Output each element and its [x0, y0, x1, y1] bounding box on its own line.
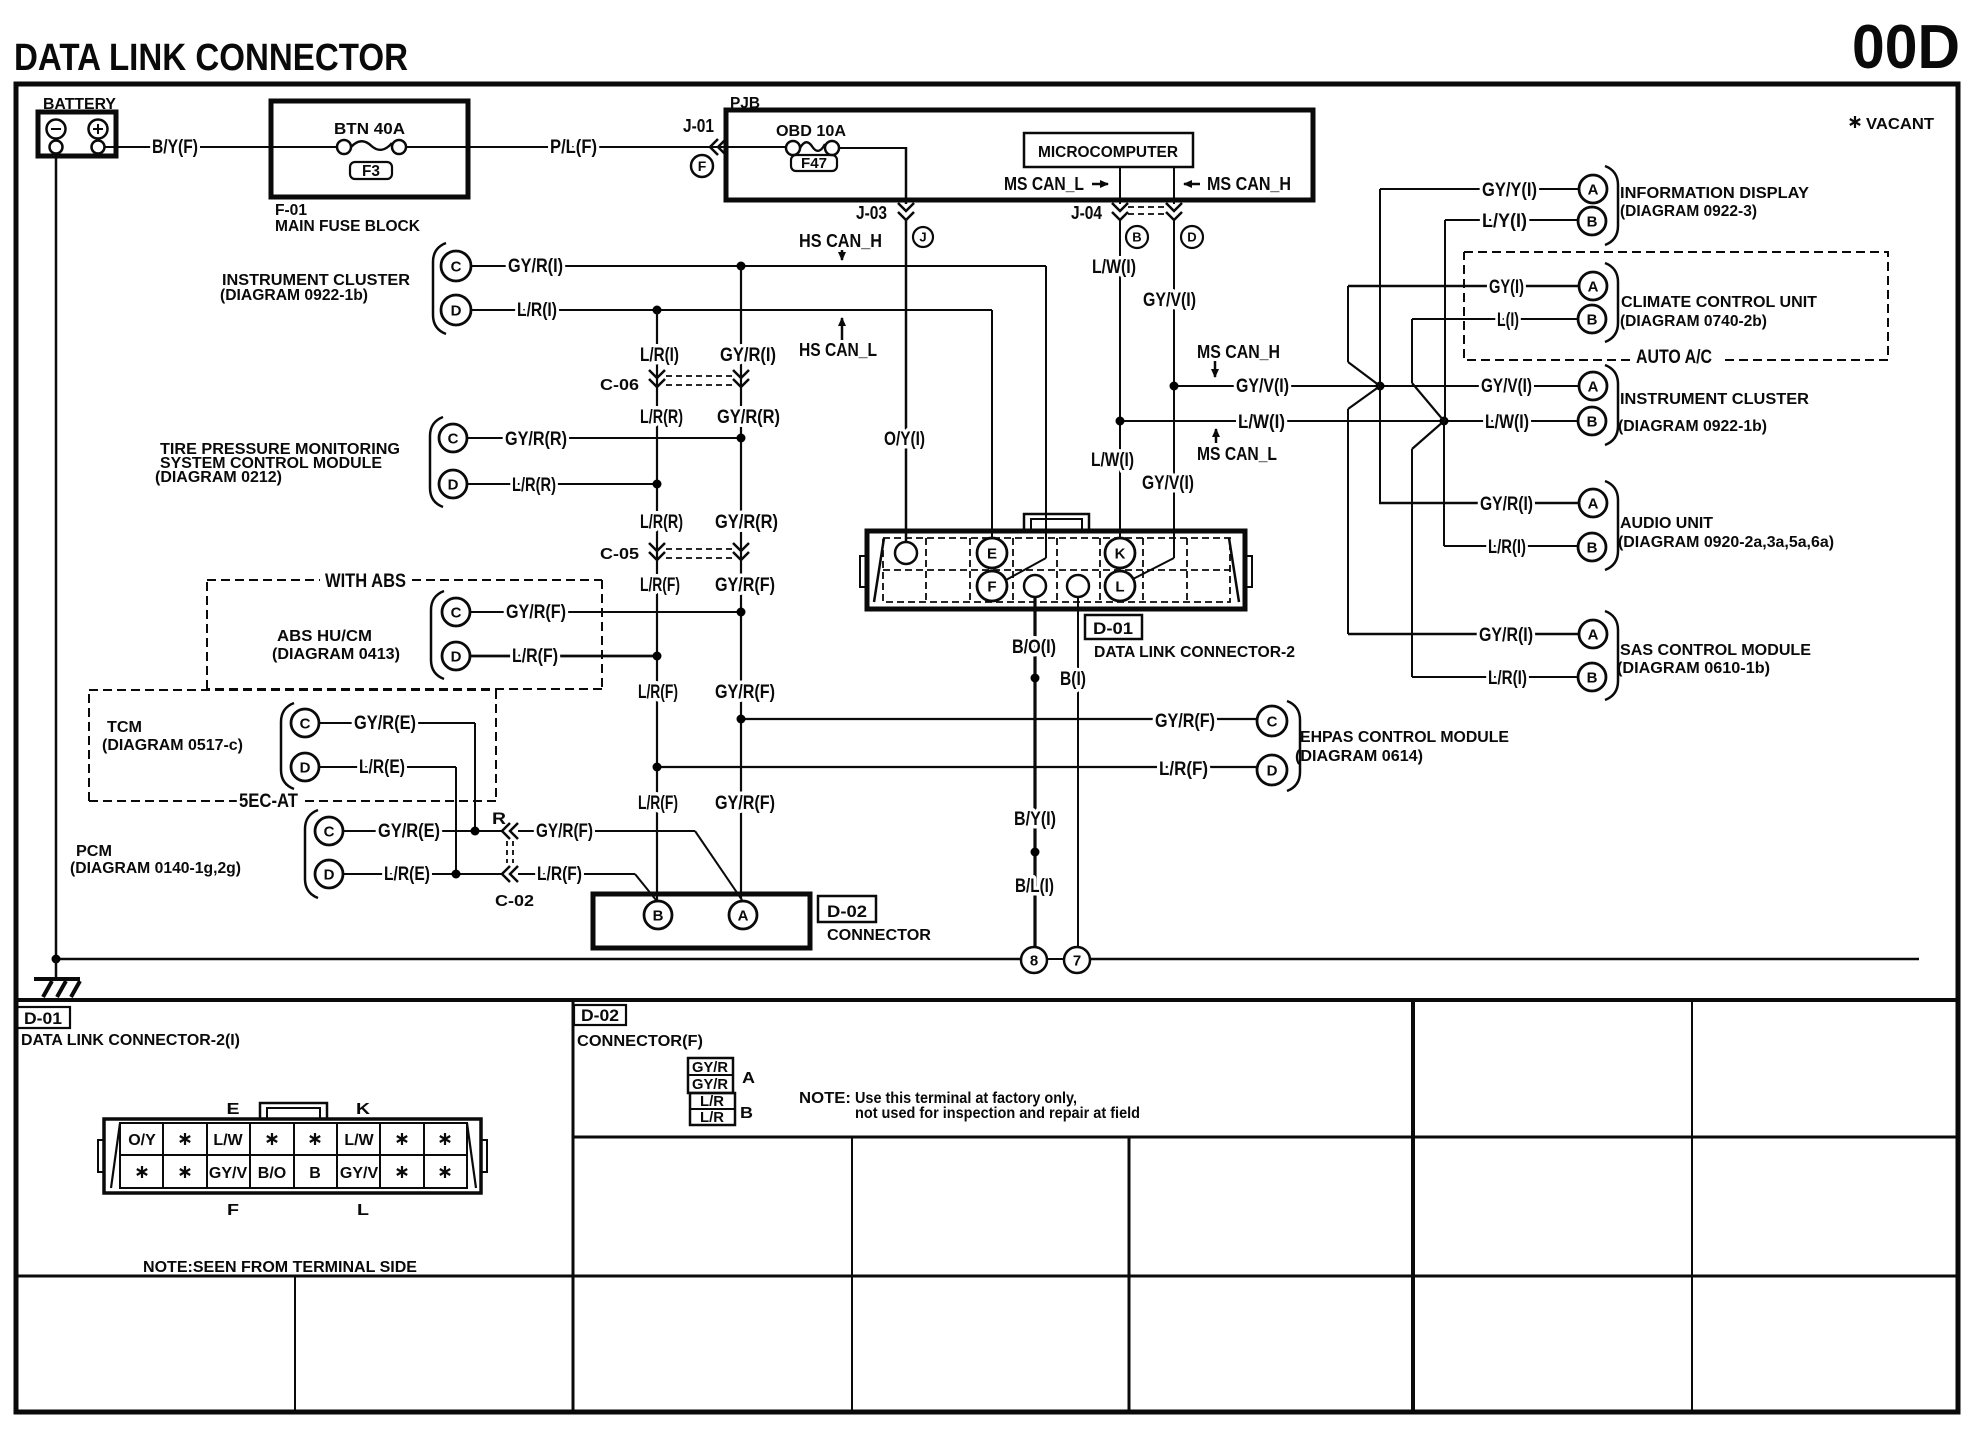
svg-text:GY/V: GY/V — [340, 1165, 379, 1182]
wire L/R(I) HS CAN_L row — [471, 309, 992, 311]
wire GY/R(F) to EHPAS C — [741, 718, 1257, 720]
svg-text:B: B — [1587, 539, 1598, 556]
svg-text:F: F — [227, 1202, 239, 1219]
pin D TCM — [291, 753, 319, 781]
svg-text:GY/R(I): GY/R(I) — [1479, 625, 1533, 646]
wire GY/Y(I) vertical — [1379, 189, 1381, 386]
svg-text:DATA LINK CONNECTOR: DATA LINK CONNECTOR — [14, 37, 408, 79]
svg-text:A: A — [1588, 495, 1599, 512]
svg-text:B/L(I): B/L(I) — [1015, 876, 1054, 897]
wire L/R(F) C-02 to D-02 pin B — [518, 873, 635, 875]
svg-text:MS CAN_H: MS CAN_H — [1207, 174, 1291, 194]
wire MS CAN_L from microcomputer — [1119, 167, 1121, 204]
svg-text:OBD 10A: OBD 10A — [776, 123, 846, 140]
svg-text:L/R(F): L/R(F) — [537, 864, 582, 885]
svg-text:(DIAGRAM 0740-2b): (DIAGRAM 0740-2b) — [1620, 313, 1767, 330]
svg-text:B/Y(I): B/Y(I) — [1014, 809, 1056, 830]
svg-text:CLIMATE CONTROL UNIT: CLIMATE CONTROL UNIT — [1621, 294, 1817, 311]
svg-text:NOTE:SEEN FROM TERMINAL SIDE: NOTE:SEEN FROM TERMINAL SIDE — [143, 1259, 417, 1276]
junction MS CAN_L X crossing — [1440, 417, 1449, 426]
svg-text:GY/R(I): GY/R(I) — [720, 345, 776, 366]
svg-text:GY/V: GY/V — [209, 1165, 248, 1182]
wire L/R(F) to EHPAS D — [657, 766, 1257, 768]
svg-text:B: B — [1587, 213, 1598, 230]
D-01 terminal diagram — [104, 1119, 481, 1193]
pin A SAS — [1579, 620, 1607, 648]
wire GY/R(I) to SAS A — [1348, 633, 1579, 636]
svg-text:A: A — [1588, 378, 1599, 395]
wire battery negative to ground bus — [55, 154, 58, 959]
wire OBD output turns down inside PJB — [905, 147, 908, 204]
svg-text:D-01: D-01 — [1093, 619, 1133, 638]
svg-text:D: D — [448, 476, 459, 493]
pin D PCM — [315, 860, 343, 888]
wire L/R(E) TCM D — [319, 766, 456, 768]
main fuse block F-01 — [271, 101, 468, 197]
svg-text:5EC-AT: 5EC-AT — [239, 791, 298, 812]
wire GY/R(I) to audio A — [1379, 502, 1579, 505]
wire L(I) to climate B — [1412, 318, 1578, 320]
terminal grid — [120, 1123, 467, 1188]
svg-text:MS CAN_L: MS CAN_L — [1197, 444, 1277, 464]
pin C instrument cluster — [441, 251, 471, 281]
ground symbol — [55, 959, 58, 978]
svg-text:GY(I): GY(I) — [1489, 277, 1524, 298]
wire L/Y(I) to info display B — [1445, 219, 1578, 221]
wire GY/R chain vertical to D-02 pin A — [740, 266, 742, 899]
svg-text:GY/R(F): GY/R(F) — [715, 682, 775, 703]
wire GY/V(I) J-04 D to DLC-2 pin L — [1173, 220, 1175, 558]
svg-text:(DIAGRAM 0610-1b): (DIAGRAM 0610-1b) — [1617, 660, 1770, 677]
svg-text:GY/R(F): GY/R(F) — [715, 575, 775, 596]
svg-text:C: C — [300, 715, 311, 732]
svg-text:B: B — [1587, 669, 1598, 686]
svg-text:L/W(I): L/W(I) — [1485, 412, 1529, 433]
pin C TCM — [291, 709, 319, 737]
svg-text:L/R(E): L/R(E) — [384, 864, 430, 885]
wire P/L(F) fuse block to PJB — [406, 146, 726, 148]
wire GY/R(E) TCM C — [319, 722, 475, 724]
svg-text:L/R: L/R — [700, 1093, 724, 1110]
svg-text:DATA LINK CONNECTOR-2: DATA LINK CONNECTOR-2 — [1094, 644, 1295, 661]
svg-text:B(I): B(I) — [1060, 669, 1086, 690]
svg-text:EHPAS CONTROL MODULE: EHPAS CONTROL MODULE — [1300, 729, 1509, 746]
wire GY(I) to climate A — [1348, 285, 1579, 288]
svg-text:BTN 40A: BTN 40A — [334, 121, 405, 138]
svg-text:L/R(I): L/R(I) — [1488, 537, 1526, 558]
svg-text:GY/V(I): GY/V(I) — [1481, 376, 1532, 397]
svg-text:E: E — [987, 545, 997, 562]
wire L(I) vertical — [1411, 319, 1413, 383]
svg-text:L/R(F): L/R(F) — [512, 646, 558, 667]
separator schematic/table — [16, 998, 1958, 1002]
svg-text:P/L(F): P/L(F) — [550, 137, 597, 158]
svg-text:CONNECTOR: CONNECTOR — [827, 927, 931, 944]
svg-text:B: B — [1132, 230, 1141, 245]
svg-text:R: R — [492, 809, 506, 828]
pin B D-02 — [644, 901, 672, 929]
svg-text:B: B — [309, 1165, 321, 1182]
svg-text:B: B — [653, 907, 664, 924]
svg-text:GY/R(F): GY/R(F) — [1155, 711, 1215, 732]
wire GY(I) vertical — [1347, 286, 1349, 362]
pin D TPMS — [439, 470, 467, 498]
svg-text:C: C — [451, 604, 462, 621]
dashed group AUTO A/C — [1464, 252, 1888, 360]
dashed group WITH ABS — [207, 580, 602, 689]
svg-text:GY/R(E): GY/R(E) — [354, 713, 416, 734]
svg-text:L/R(E): L/R(E) — [359, 757, 405, 778]
svg-text:AUTO A/C: AUTO A/C — [1636, 347, 1712, 368]
svg-text:A: A — [738, 907, 749, 924]
svg-text:L(I): L(I) — [1497, 310, 1519, 331]
svg-text:L/R(F): L/R(F) — [1159, 759, 1208, 780]
pin D EHPAS — [1257, 755, 1287, 785]
svg-text:D: D — [1267, 762, 1278, 779]
wire GY/R(I) HS CAN_H row — [471, 265, 1046, 267]
svg-text:L: L — [1115, 578, 1124, 595]
svg-text:O/Y(I): O/Y(I) — [884, 429, 925, 450]
wire GY/V(I) MS CAN_H row — [1174, 385, 1579, 387]
svg-text:(DIAGRAM 0614): (DIAGRAM 0614) — [1295, 748, 1423, 765]
wire L/R(F) ABS D — [470, 655, 657, 658]
svg-text:L/Y(I): L/Y(I) — [1482, 211, 1527, 232]
svg-text:PCM: PCM — [76, 843, 112, 860]
svg-text:00D: 00D — [1852, 13, 1960, 82]
svg-text:F3: F3 — [362, 163, 380, 180]
svg-text:L/R(F): L/R(F) — [638, 682, 678, 703]
label D-02 table — [574, 1005, 626, 1025]
svg-text:C: C — [448, 430, 459, 447]
svg-text:(DIAGRAM 0140-1g,2g): (DIAGRAM 0140-1g,2g) — [70, 860, 241, 877]
svg-text:not used for inspection and re: not used for inspection and repair at fi… — [855, 1105, 1140, 1122]
svg-text:GY/V(I): GY/V(I) — [1142, 473, 1194, 494]
battery — [38, 112, 116, 156]
table grid — [572, 1000, 575, 1412]
inner dashed grid — [883, 538, 1230, 602]
svg-text:GY/R(I): GY/R(I) — [1480, 494, 1533, 515]
svg-text:A: A — [742, 1070, 755, 1087]
svg-text:F-01: F-01 — [275, 202, 307, 219]
wire MS CAN_H from microcomputer — [1173, 167, 1175, 204]
svg-text:GY/V(I): GY/V(I) — [1236, 376, 1289, 397]
pin C EHPAS — [1257, 706, 1287, 736]
svg-text:D-02: D-02 — [581, 1006, 619, 1025]
svg-text:INFORMATION DISPLAY: INFORMATION DISPLAY — [1620, 185, 1809, 202]
svg-text:SAS CONTROL MODULE: SAS CONTROL MODULE — [1620, 642, 1811, 659]
pin B audio — [1578, 533, 1606, 561]
pin L — [1105, 571, 1135, 601]
note VACANT — [1850, 116, 1860, 128]
svg-text:8: 8 — [1030, 952, 1038, 969]
svg-text:A: A — [1588, 626, 1599, 643]
wire GY/R(F) C-02 to D-02 pin A — [518, 830, 695, 832]
svg-text:(DIAGRAM 0922-1b): (DIAGRAM 0922-1b) — [1618, 418, 1767, 435]
svg-text:C: C — [451, 258, 462, 275]
wire B/Y(F) battery to main fuse block — [105, 146, 271, 148]
label D-01 — [1085, 615, 1142, 639]
wire L/R chain vertical to D-02 pin B — [656, 310, 658, 901]
svg-text:GY/V(I): GY/V(I) — [1143, 290, 1196, 311]
PJB junction block — [726, 110, 1313, 200]
svg-text:D: D — [451, 302, 462, 319]
svg-text:L/R(R): L/R(R) — [640, 512, 683, 533]
svg-text:B/O: B/O — [258, 1165, 286, 1182]
svg-text:MS CAN_H: MS CAN_H — [1197, 342, 1280, 362]
wire O/Y(I) J-03 to DLC-2 pin 1 — [905, 220, 908, 542]
svg-text:GY/R(R): GY/R(R) — [717, 407, 780, 428]
svg-text:L/R(R): L/R(R) — [512, 475, 556, 496]
dashed group TCM 5EC-AT — [89, 690, 496, 801]
pin K — [1105, 538, 1135, 568]
wire L/W(I) MS CAN_L row — [1120, 420, 1578, 422]
ground splice 7 — [1064, 947, 1090, 973]
svg-text:BATTERY: BATTERY — [43, 96, 116, 113]
svg-text:D: D — [1187, 230, 1196, 245]
svg-text:HS CAN_H: HS CAN_H — [799, 231, 882, 251]
svg-text:MS CAN_L: MS CAN_L — [1004, 174, 1084, 194]
svg-text:L/R(F): L/R(F) — [640, 575, 680, 596]
svg-text:GY/R(F): GY/R(F) — [715, 793, 775, 814]
wire L/W(I) J-04 B to DLC-2 pin K — [1119, 220, 1121, 538]
svg-text:(DIAGRAM 0922-1b): (DIAGRAM 0922-1b) — [220, 287, 368, 304]
svg-text:AUDIO UNIT: AUDIO UNIT — [1620, 515, 1713, 532]
svg-text:VACANT: VACANT — [1866, 116, 1934, 133]
wire between splices — [1047, 958, 1064, 960]
svg-text:GY/R(E): GY/R(E) — [378, 821, 440, 842]
svg-text:L/R(F): L/R(F) — [638, 793, 678, 814]
wire GY/Y(I) to info display A — [1380, 188, 1579, 190]
pin C ABS — [442, 598, 470, 626]
pin B — [1067, 575, 1089, 597]
svg-text:GY/R(F): GY/R(F) — [506, 602, 566, 623]
svg-text:MAIN FUSE BLOCK: MAIN FUSE BLOCK — [275, 218, 420, 235]
svg-text:B: B — [1587, 413, 1598, 430]
trapezoid ends — [874, 538, 1239, 602]
svg-text:B: B — [740, 1105, 753, 1122]
fuse BTN 40A F3 — [271, 146, 337, 148]
microcomputer — [1024, 133, 1193, 167]
junction MS CAN_H X crossing — [1376, 382, 1385, 391]
svg-text:L/W: L/W — [344, 1132, 374, 1149]
pin B instrument cluster right — [1578, 407, 1606, 435]
svg-text:E: E — [227, 1101, 240, 1118]
ground splice 8 — [1021, 947, 1047, 973]
svg-text:D: D — [300, 759, 311, 776]
fuse OBD 10A F47 — [726, 146, 786, 148]
wire L/R(R) TPMS D — [467, 483, 657, 485]
svg-text:HS CAN_L: HS CAN_L — [799, 340, 877, 360]
pin D ABS — [442, 642, 470, 670]
svg-text:GY/R(R): GY/R(R) — [715, 512, 778, 533]
svg-text:C: C — [1267, 713, 1278, 730]
svg-text:D-02: D-02 — [827, 902, 867, 921]
wire L/R(E) PCM D to C-02 — [343, 873, 502, 875]
svg-text:C-02: C-02 — [495, 893, 534, 910]
ground bus wire — [56, 958, 1021, 961]
wire B(I) pin to splice 7 — [1077, 597, 1079, 947]
pin B climate — [1578, 305, 1606, 333]
svg-text:(DIAGRAM 0413): (DIAGRAM 0413) — [272, 646, 400, 663]
wire L/R(I) to audio B — [1444, 545, 1578, 547]
pin A instrument cluster right — [1579, 372, 1607, 400]
wire B/O(I)-B/Y(I)-B/L(I) pin to splice 8 — [1033, 597, 1036, 947]
svg-text:L/R(I): L/R(I) — [640, 345, 679, 366]
pin A D-02 — [729, 901, 757, 929]
pin B info display — [1578, 207, 1606, 235]
svg-text:F47: F47 — [801, 155, 827, 172]
svg-text:GY/Y(I): GY/Y(I) — [1482, 180, 1537, 201]
svg-text:(DIAGRAM 0517-c): (DIAGRAM 0517-c) — [102, 737, 243, 754]
wire GY/R(F) ABS C — [470, 611, 741, 613]
svg-text:C-05: C-05 — [600, 546, 639, 563]
svg-text:(DIAGRAM 0920-2a,3a,5a,6a): (DIAGRAM 0920-2a,3a,5a,6a) — [1618, 534, 1834, 551]
svg-text:GY/R(R): GY/R(R) — [505, 429, 567, 450]
svg-text:L/W: L/W — [213, 1132, 243, 1149]
pin A info display — [1579, 175, 1607, 203]
pin B/O — [1024, 575, 1046, 597]
svg-text:O/Y: O/Y — [128, 1132, 156, 1149]
svg-text:L/R: L/R — [700, 1109, 724, 1126]
svg-text:A: A — [1588, 181, 1599, 198]
connector D-01 DATA LINK CONNECTOR-2 — [867, 531, 1245, 609]
svg-text:GY/R(I): GY/R(I) — [508, 256, 563, 277]
D-02 terminal detail — [688, 1058, 733, 1093]
pin 1 O/Y — [895, 542, 917, 564]
svg-text:J: J — [919, 230, 926, 245]
svg-text:PJB: PJB — [730, 95, 760, 112]
svg-text:L/W(I): L/W(I) — [1092, 257, 1136, 278]
svg-text:J-01: J-01 — [683, 116, 714, 136]
pin C TPMS — [439, 424, 467, 452]
svg-text:K: K — [1115, 545, 1126, 562]
svg-text:GY/R(F): GY/R(F) — [536, 821, 593, 842]
svg-text:ABS HU/CM: ABS HU/CM — [277, 628, 372, 645]
connector D-02 — [593, 894, 810, 948]
svg-text:D: D — [451, 648, 462, 665]
svg-text:7: 7 — [1073, 952, 1081, 969]
wire GY/R(E) PCM C to C-02 — [343, 830, 502, 832]
wire L/R(I) to SAS B — [1412, 676, 1578, 678]
svg-text:L/W(I): L/W(I) — [1091, 450, 1134, 471]
svg-text:B/O(I): B/O(I) — [1012, 637, 1056, 658]
latch — [1024, 514, 1089, 531]
label D-02 — [818, 896, 876, 922]
svg-text:L: L — [357, 1202, 369, 1219]
svg-text:INSTRUMENT CLUSTER: INSTRUMENT CLUSTER — [1620, 391, 1809, 408]
svg-text:B: B — [1587, 311, 1598, 328]
svg-text:D-01: D-01 — [24, 1009, 62, 1028]
svg-text:K: K — [356, 1101, 371, 1118]
svg-text:J-03: J-03 — [856, 203, 887, 223]
svg-text:D: D — [324, 866, 335, 883]
svg-text:C: C — [324, 823, 335, 840]
svg-text:GY/R: GY/R — [692, 1059, 728, 1076]
svg-text:(DIAGRAM 0922-3): (DIAGRAM 0922-3) — [1620, 203, 1757, 220]
wire GY/R to L/W corner down to pin F — [1045, 266, 1047, 558]
svg-text:C-06: C-06 — [600, 377, 639, 394]
svg-text:L/W(I): L/W(I) — [1238, 412, 1285, 433]
svg-text:GY/R: GY/R — [692, 1076, 728, 1093]
svg-text:F: F — [698, 158, 707, 174]
pin A climate — [1579, 272, 1607, 300]
junction GY/R(I) — [737, 262, 746, 271]
wire GY/R(R) TPMS C — [467, 437, 741, 439]
svg-text:NOTE:: NOTE: — [799, 1090, 851, 1107]
pin A audio — [1579, 489, 1607, 517]
pin C PCM — [315, 817, 343, 845]
svg-text:F: F — [987, 578, 996, 595]
svg-text:L/R(I): L/R(I) — [1488, 668, 1527, 689]
svg-text:B/Y(F): B/Y(F) — [152, 137, 198, 158]
svg-text:CONNECTOR(F): CONNECTOR(F) — [577, 1033, 703, 1050]
pin F — [977, 571, 1007, 601]
svg-text:WITH ABS: WITH ABS — [325, 571, 406, 592]
svg-text:MICROCOMPUTER: MICROCOMPUTER — [1038, 144, 1178, 161]
side tabs — [860, 556, 867, 587]
svg-text:J-04: J-04 — [1071, 203, 1102, 223]
svg-text:L/R(I): L/R(I) — [517, 300, 557, 321]
junction L/R(I) — [653, 306, 662, 315]
svg-text:L/R(R): L/R(R) — [640, 407, 683, 428]
pin B SAS — [1578, 663, 1606, 691]
svg-text:TCM: TCM — [107, 719, 142, 736]
pin D instrument cluster — [441, 295, 471, 325]
svg-text:A: A — [1588, 278, 1599, 295]
pin E — [977, 538, 1007, 568]
svg-text:(DIAGRAM 0212): (DIAGRAM 0212) — [155, 469, 282, 486]
svg-text:DATA LINK CONNECTOR-2(I): DATA LINK CONNECTOR-2(I) — [21, 1032, 240, 1049]
wire L/Y(I) vertical — [1444, 220, 1446, 421]
label D-01 table — [16, 1007, 70, 1028]
